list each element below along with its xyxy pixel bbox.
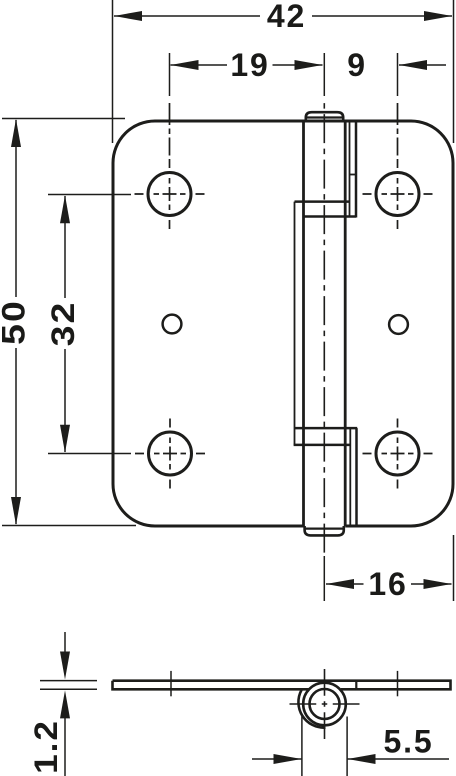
- screw hole bottom-left: [149, 432, 192, 475]
- bottom band lower line: [294, 444, 351, 447]
- dim 1.2 arrow up: [60, 690, 70, 718]
- pin top cap: [306, 112, 343, 121]
- pin barrel left edge: [302, 121, 305, 526]
- dim 1.2 extension top: [40, 680, 97, 682]
- svg-text:42: 42: [267, 0, 306, 34]
- crosshair bottom-left hole vertical: [169, 419, 171, 489]
- crosshair top-left hole vertical: [169, 103, 171, 229]
- top right knuckle seam thick: [355, 121, 358, 218]
- screw hole top-right: [376, 173, 419, 216]
- dim 50 arrow bottom: [11, 497, 21, 525]
- leaf curl arc: [298, 690, 325, 728]
- dim 16 extension right: [453, 535, 455, 601]
- dim 9 arrow tail: [399, 64, 446, 66]
- dim 1.2 arrow down: [60, 652, 70, 680]
- dim 32 extension bottom: [48, 453, 131, 455]
- dim 19 line: [171, 64, 323, 66]
- svg-text:50: 50: [0, 299, 32, 345]
- bottom right knuckle seam thick: [355, 428, 358, 526]
- crosshair bottom-right hole vertical: [397, 419, 399, 489]
- dim 16 line: [326, 583, 452, 585]
- crosshair bottom-left hole horizontal: [135, 453, 205, 455]
- dim 42 line: [114, 15, 452, 17]
- top knuckle jog: [350, 174, 357, 176]
- svg-text:19: 19: [230, 47, 269, 83]
- dim 5.5 arrow right tail: [348, 758, 450, 760]
- pin centerline solid extension: [323, 53, 325, 96]
- dim 9 arrow outside right: [399, 60, 427, 70]
- dim 42 arrow right: [424, 11, 452, 21]
- screw hole top-left: [148, 173, 191, 216]
- dim 42 arrow left: [114, 11, 142, 21]
- extension line hole top-left: [169, 53, 171, 96]
- svg-text:5.5: 5.5: [384, 724, 434, 760]
- screw hole bottom-right: [376, 432, 419, 475]
- dim 1.2 extension bottom: [40, 688, 97, 690]
- dim 50 line: [15, 120, 17, 524]
- dim 32 line: [64, 196, 66, 452]
- svg-text:1.2: 1.2: [30, 719, 65, 774]
- dim 5.5 extension right: [346, 717, 348, 776]
- small hole right: [389, 315, 408, 334]
- dim 1.2 line upper: [64, 632, 66, 654]
- barrel centerline horizontal: [290, 703, 360, 705]
- left knuckle seam line: [294, 202, 296, 445]
- dim 50 arrow top: [11, 119, 21, 147]
- small hole left: [163, 315, 182, 334]
- dim 5.5 extension left: [301, 717, 303, 776]
- dim 50 extension bottom: [2, 525, 136, 527]
- hinge plate outline: [113, 121, 453, 526]
- dim 5.5 arrow left tail: [252, 758, 302, 760]
- dim 19 arrow left: [171, 60, 199, 70]
- crosshair top-left hole horizontal: [135, 193, 205, 195]
- bottom band upper line: [295, 427, 358, 430]
- svg-text:9: 9: [347, 47, 367, 83]
- svg-text:16: 16: [368, 566, 407, 602]
- side view leaf step: [355, 680, 357, 691]
- dim 32 arrow bottom: [60, 425, 70, 453]
- pin bottom cap: [305, 526, 344, 535]
- dim 19 arrow right: [295, 60, 323, 70]
- dim 16 arrow right: [424, 579, 452, 589]
- side view hole tick right: [397, 671, 399, 696]
- barrel outer circle: [303, 683, 346, 726]
- dim 16 arrow left: [326, 579, 354, 589]
- dim 5.5 arrow right: [348, 754, 376, 764]
- crosshair top-right hole horizontal: [363, 193, 433, 195]
- dim 16 extension left solid: [323, 556, 325, 601]
- svg-text:32: 32: [46, 301, 82, 347]
- pin centerline: [323, 103, 325, 553]
- side view hole tick left: [170, 671, 172, 696]
- crosshair top-right hole vertical: [397, 103, 399, 229]
- dim 5.5 arrow left: [274, 754, 302, 764]
- extension line hole top-right: [397, 53, 399, 96]
- barrel centerline vertical: [324, 669, 326, 739]
- pin bottom cap chord: [305, 527, 343, 529]
- crosshair bottom-right hole horizontal: [363, 453, 433, 455]
- dim 42 extension right: [453, 0, 455, 143]
- bottom right knuckle seam thin: [349, 428, 351, 526]
- side view bar outline: [113, 681, 451, 690]
- top band upper line: [295, 200, 350, 203]
- barrel inner circle: [310, 689, 340, 719]
- dim 42 extension left: [112, 0, 114, 143]
- pin barrel right edge: [344, 121, 347, 526]
- dim 32 extension top: [48, 194, 131, 196]
- dim 1.2 line lower: [64, 716, 66, 776]
- top band lower line: [304, 215, 357, 218]
- top right knuckle seam thin: [349, 121, 351, 218]
- dim 32 arrow top: [60, 195, 70, 223]
- dim 50 extension top: [2, 118, 125, 120]
- pin top cap chord: [306, 116, 342, 118]
